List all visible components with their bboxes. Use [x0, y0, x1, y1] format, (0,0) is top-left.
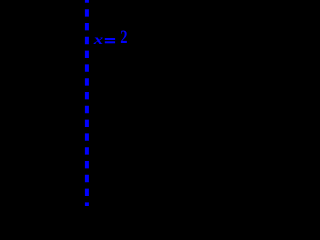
svg-text:2: 2	[120, 26, 127, 47]
svg-text:x: x	[93, 31, 104, 47]
